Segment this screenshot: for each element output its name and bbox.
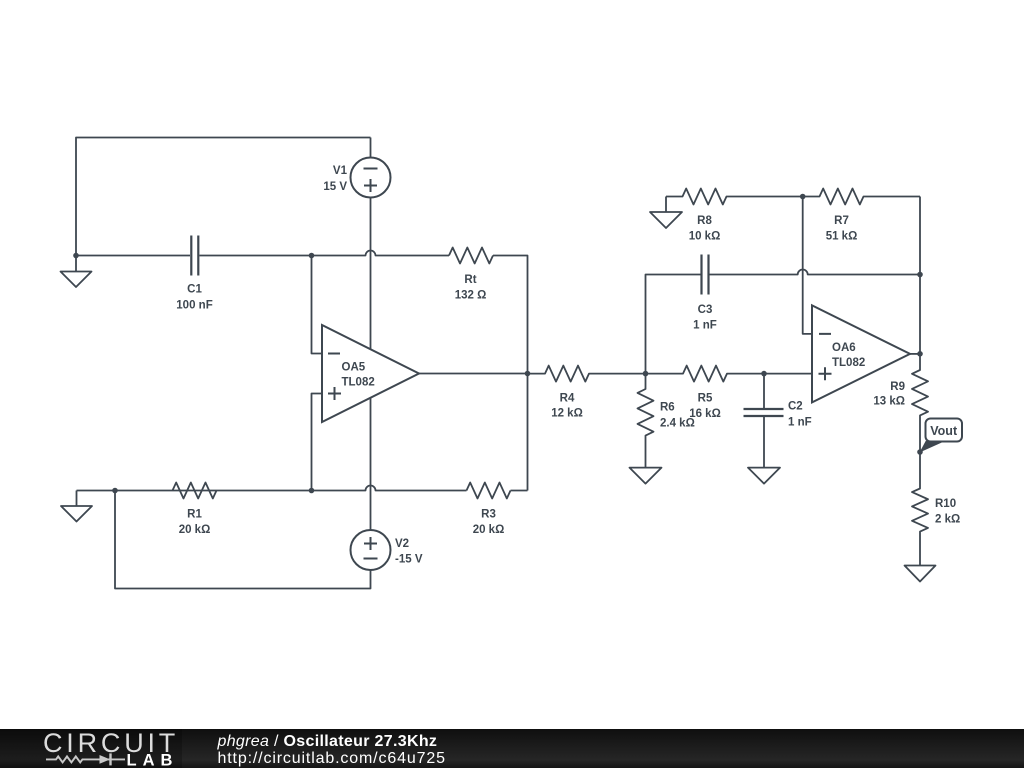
wire [910, 353, 920, 355]
wire [370, 198, 372, 350]
svg-text:Rt: Rt [464, 274, 476, 286]
node D [112, 488, 118, 494]
wire [77, 486, 467, 491]
wire [803, 197, 812, 334]
capacitor C3 [693, 255, 717, 332]
svg-text:Vout: Vout [930, 424, 958, 438]
svg-text:15 V: 15 V [323, 181, 347, 193]
ground [630, 468, 662, 484]
node E [309, 488, 315, 494]
wire [312, 394, 323, 491]
resistor R1 [173, 483, 217, 537]
svg-text:R7: R7 [834, 215, 849, 227]
svg-text:12 kΩ: 12 kΩ [551, 408, 583, 420]
wire [919, 197, 921, 354]
footer bar [0, 729, 1024, 768]
voltage source V2 [351, 530, 423, 570]
svg-text:R5: R5 [698, 393, 713, 405]
svg-text:10 kΩ: 10 kΩ [689, 231, 721, 243]
ground [905, 566, 936, 582]
svg-text:C3: C3 [698, 304, 713, 316]
wire [76, 138, 371, 256]
svg-text:20 kΩ: 20 kΩ [179, 524, 211, 536]
wire [710, 270, 921, 275]
svg-text:R10: R10 [935, 498, 956, 510]
node A [73, 253, 79, 259]
svg-text:51 kΩ: 51 kΩ [826, 231, 858, 243]
voltage source V1 [323, 138, 390, 198]
node I [800, 194, 806, 200]
resistor R10 [912, 452, 960, 566]
svg-text:V1: V1 [333, 165, 348, 177]
svg-text:1 nF: 1 nF [788, 417, 812, 429]
svg-text:-15 V: -15 V [395, 554, 423, 566]
svg-text:R4: R4 [560, 393, 575, 405]
svg-text:100 nF: 100 nF [176, 299, 212, 311]
svg-text:R9: R9 [890, 381, 905, 393]
svg-text:http://circuitlab.com/c64u725: http://circuitlab.com/c64u725 [218, 750, 446, 767]
resistor R6 [638, 374, 695, 468]
flag Vout [920, 419, 963, 453]
svg-text:OA5: OA5 [342, 362, 366, 374]
svg-text:R6: R6 [660, 402, 675, 414]
svg-text:R8: R8 [697, 215, 712, 227]
svg-text:1 nF: 1 nF [693, 320, 717, 332]
svg-text:C1: C1 [187, 284, 202, 296]
resistor R3 [467, 483, 528, 537]
ground [61, 256, 92, 288]
node J [917, 351, 923, 357]
node G [917, 272, 923, 278]
svg-text:2 kΩ: 2 kΩ [935, 514, 960, 526]
wire [764, 373, 812, 375]
ground [748, 468, 780, 484]
wire [76, 255, 190, 257]
resistor R8 [666, 189, 803, 243]
svg-text:V2: V2 [395, 538, 409, 550]
op-amp OA5 [322, 325, 419, 422]
resistor Rt [449, 248, 493, 302]
svg-text:132 Ω: 132 Ω [455, 290, 487, 302]
svg-text:LAB: LAB [127, 751, 179, 768]
resistor R5 [646, 366, 765, 420]
node H [761, 371, 767, 377]
resistor R9 [873, 354, 928, 452]
resistor R4 [528, 366, 646, 420]
capacitor C2 [744, 374, 812, 468]
logo CIRCUIT LAB [43, 728, 179, 768]
wire [200, 251, 450, 256]
svg-text:13 kΩ: 13 kΩ [873, 396, 905, 408]
svg-text:2.4 kΩ: 2.4 kΩ [660, 418, 695, 430]
ground [650, 197, 682, 229]
ground [61, 491, 92, 522]
svg-text:TL082: TL082 [342, 377, 375, 389]
wire [370, 398, 372, 530]
svg-text:20 kΩ: 20 kΩ [473, 524, 505, 536]
wire [419, 373, 528, 375]
node F [643, 371, 649, 377]
svg-text:phgrea / Oscillateur 27.3Khz: phgrea / Oscillateur 27.3Khz [217, 733, 438, 750]
svg-text:R3: R3 [481, 509, 496, 521]
resistor R7 [803, 189, 920, 243]
node B [309, 253, 315, 259]
svg-text:TL082: TL082 [832, 357, 865, 369]
wire [493, 256, 528, 491]
svg-text:R1: R1 [187, 509, 202, 521]
wire [115, 491, 371, 589]
svg-text:C2: C2 [788, 401, 803, 413]
footer title [217, 733, 446, 767]
node C [525, 371, 531, 377]
wire [646, 275, 701, 374]
node K [917, 449, 923, 455]
op-amp OA6 [812, 305, 910, 402]
capacitor C1 [176, 236, 212, 312]
svg-text:OA6: OA6 [832, 342, 856, 354]
wire [312, 256, 323, 354]
